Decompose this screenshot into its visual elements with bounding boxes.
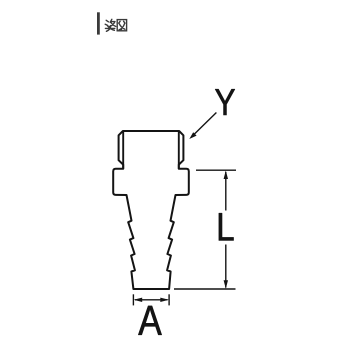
extension tick left (A): [132, 294, 134, 305]
cap chamfer inner line right: [178, 131, 180, 169]
cap chamfer inner line left: [122, 131, 124, 169]
label Y: [215, 89, 235, 115]
extension line top (L): [196, 169, 236, 171]
leader arrow Y: [189, 113, 216, 140]
extension line bottom (L): [174, 288, 236, 290]
label A: [138, 306, 161, 335]
dimension line A: [134, 298, 170, 302]
title bar: [97, 12, 100, 34]
label L: [219, 213, 234, 240]
fitting outline: cap nut, collar, barbed shank silhouette: [113, 131, 189, 289]
extension tick right (A): [168, 294, 170, 305]
dimension line L: [224, 170, 228, 288]
title text 姿図: [105, 19, 126, 31]
